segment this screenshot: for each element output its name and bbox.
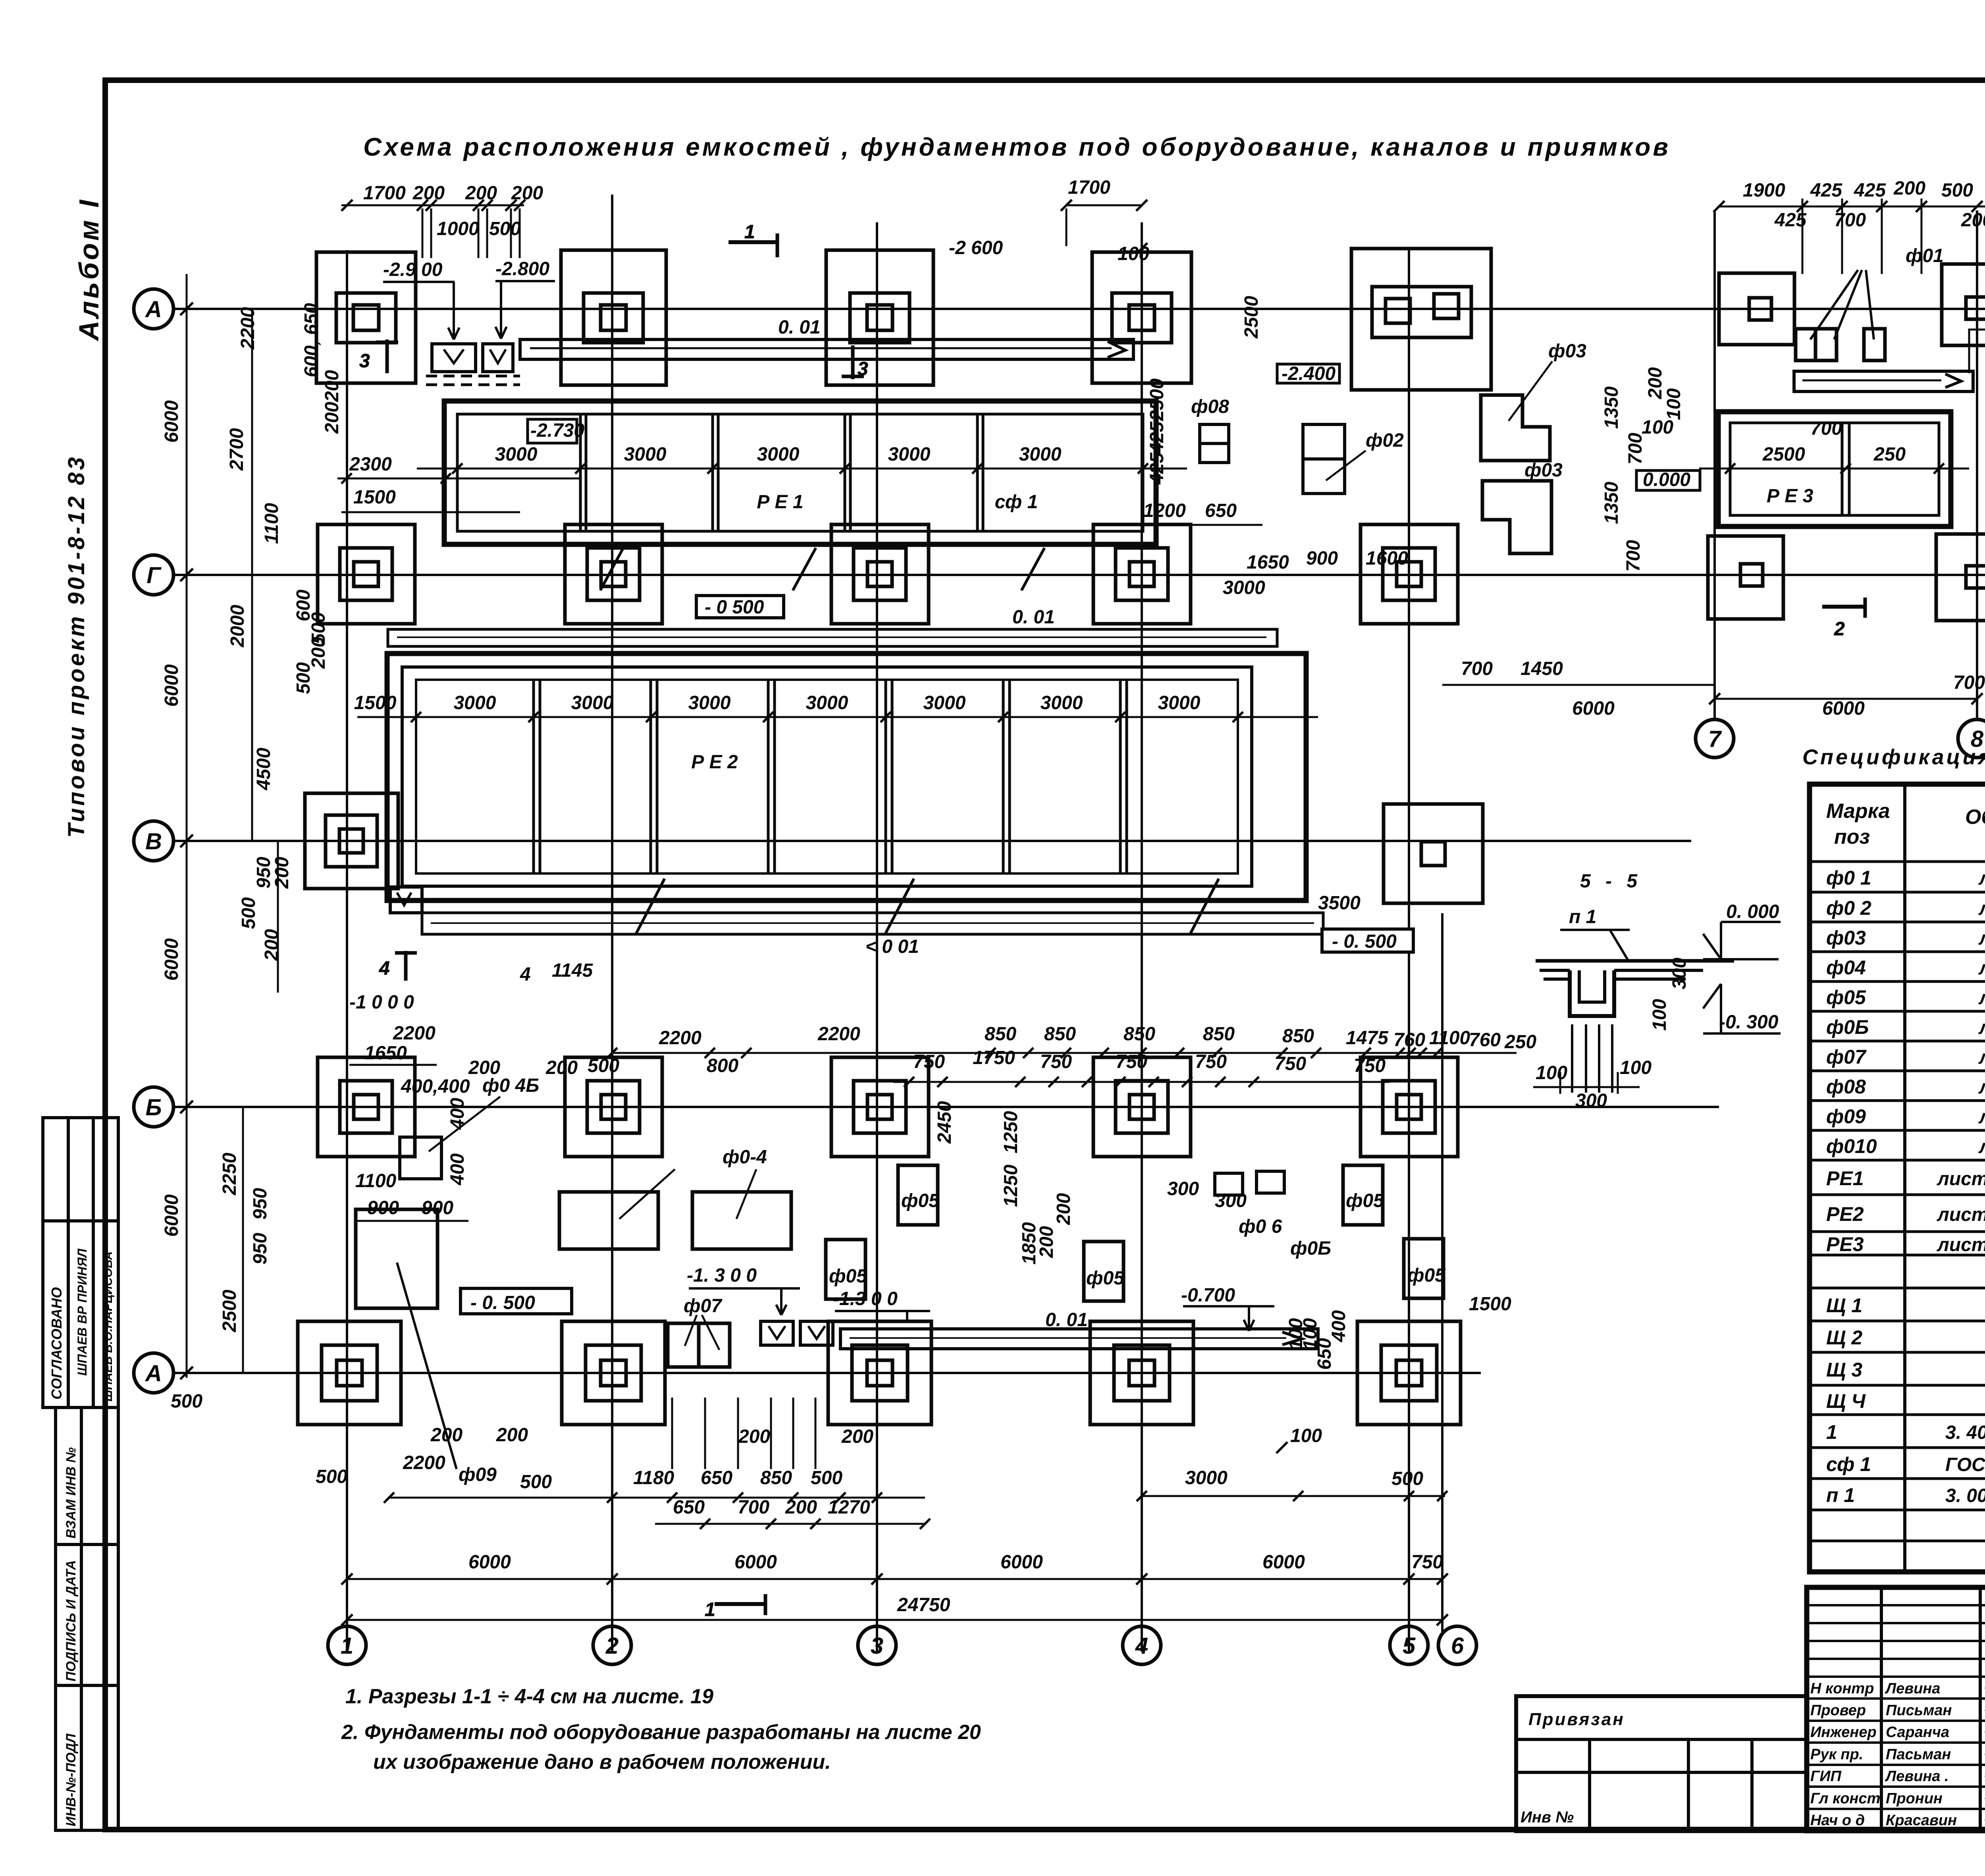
- svg-text:3: 3: [359, 351, 370, 372]
- svg-text:1350: 1350: [1601, 386, 1622, 429]
- svg-text:6000: 6000: [161, 664, 182, 707]
- svg-text:2. Фундаменты под оборуд: 2. Фундаменты под оборудование разработа…: [341, 1721, 981, 1744]
- svg-text:лист: лист: [1978, 1047, 1985, 1068]
- svg-text:500: 500: [238, 897, 259, 929]
- svg-text:2250: 2250: [219, 1153, 240, 1195]
- svg-text:ф07: ф07: [684, 1296, 723, 1317]
- dim line bottom-6000: [347, 1578, 1442, 1580]
- svg-text:200: 200: [738, 1426, 770, 1447]
- axis circle 5: [1390, 1626, 1428, 1664]
- svg-text:Провер: Провер: [1810, 1702, 1866, 1719]
- svg-text:1: 1: [744, 222, 755, 243]
- svg-text:3: 3: [858, 359, 868, 380]
- svg-text:200: 200: [261, 929, 282, 961]
- svg-text:6000: 6000: [161, 938, 182, 981]
- svg-text:2000: 2000: [227, 605, 248, 648]
- svg-text:-0. 300: -0. 300: [1719, 1012, 1779, 1033]
- svg-text:950: 950: [250, 1233, 271, 1265]
- svg-text:200: 200: [496, 1425, 528, 1446]
- svg-text:В: В: [145, 829, 162, 854]
- footing A2-1: [298, 1321, 401, 1425]
- svg-text:1100: 1100: [1429, 1028, 1470, 1049]
- footing G1: [318, 524, 415, 624]
- svg-text:Щ 2: Щ 2: [1826, 1327, 1862, 1349]
- svg-text:3000: 3000: [1041, 692, 1083, 713]
- right scheme channel: [1794, 371, 1973, 391]
- svg-text:-0.700: -0.700: [1181, 1285, 1235, 1306]
- axis circle В row2: [134, 821, 173, 861]
- leader slashes under RE2: [636, 879, 1219, 935]
- level -0.500 box bottom: [461, 1288, 572, 1314]
- leader fo-10: [429, 1097, 500, 1151]
- svg-text:425: 425: [1854, 180, 1886, 201]
- svg-text:3000: 3000: [1019, 444, 1062, 465]
- leaders fo1: [1810, 270, 1874, 339]
- dim line rs-bot: [1715, 698, 1977, 700]
- svg-text:ф05: ф05: [1826, 986, 1866, 1008]
- svg-text:ф05: ф05: [829, 1266, 867, 1287]
- svg-text:сф 1: сф 1: [995, 492, 1038, 513]
- svg-text:6000: 6000: [161, 400, 182, 443]
- svg-text:3000: 3000: [454, 692, 496, 713]
- svg-text:-2.800: -2.800: [495, 258, 549, 280]
- svg-text:2200: 2200: [237, 307, 258, 350]
- spec header texts: [1826, 800, 1985, 848]
- svg-text:500: 500: [811, 1467, 842, 1488]
- dim chain mid2: [893, 1081, 1389, 1083]
- svg-text:лист: лист: [1978, 1107, 1985, 1128]
- axis row В 2: [173, 840, 1691, 842]
- svg-text:ГИП: ГИП: [1810, 1768, 1842, 1785]
- svg-text:425: 425: [1810, 180, 1842, 201]
- svg-text:300: 300: [1575, 1090, 1607, 1111]
- svg-text:6000: 6000: [1572, 698, 1615, 719]
- tick 100: [1136, 243, 1147, 254]
- svg-text:500: 500: [1941, 180, 1973, 201]
- svg-text:< 0 01: < 0 01: [865, 936, 919, 957]
- svg-text:2200: 2200: [659, 1028, 701, 1049]
- fo-4 rect pair: [559, 1192, 791, 1249]
- leader -0.700: [1183, 1306, 1274, 1331]
- svg-text:760: 760: [1393, 1030, 1425, 1051]
- svg-text:ф07: ф07: [1826, 1046, 1867, 1068]
- level 0.000 box: [1636, 469, 1700, 490]
- footing scheme G-7: [1708, 536, 1783, 619]
- footing A1: [316, 252, 416, 383]
- level -0.500 box right: [1322, 929, 1413, 952]
- svg-text:1600: 1600: [1366, 548, 1408, 569]
- svg-text:750: 750: [1116, 1051, 1147, 1072]
- svg-text:6000: 6000: [1822, 698, 1865, 719]
- svg-text:2450: 2450: [934, 1101, 955, 1144]
- footing B5: [1361, 1057, 1458, 1157]
- svg-text:700: 700: [1623, 540, 1644, 572]
- svg-text:2500: 2500: [219, 1290, 240, 1332]
- level -2.400 box: [1277, 363, 1339, 384]
- leader fo3 upper: [1509, 361, 1552, 421]
- fo8 pair: [1200, 424, 1229, 463]
- svg-text:3: 3: [871, 1633, 883, 1659]
- svg-text:500: 500: [316, 1466, 347, 1487]
- svg-text:400,400: 400,400: [401, 1076, 470, 1097]
- section mark 1 bottom: [705, 1594, 766, 1620]
- dim line through RE2: [357, 716, 1318, 718]
- svg-text:лист: лист: [1978, 987, 1985, 1008]
- svg-text:250: 250: [1504, 1032, 1536, 1053]
- svg-text:ф03: ф03: [1548, 341, 1586, 362]
- fo5 square 2: [1343, 1165, 1383, 1225]
- footing V5: [1384, 804, 1483, 903]
- tank bank RE2 outer: [387, 654, 1306, 900]
- axis row А 4: [173, 1372, 1481, 1374]
- axis col 7: [1713, 210, 1716, 719]
- footing scheme A-8: [1942, 264, 1985, 345]
- svg-text:1700: 1700: [1068, 177, 1110, 198]
- svg-text:500: 500: [520, 1471, 552, 1492]
- axis col 1: [346, 250, 348, 1652]
- svg-text:п 1: п 1: [1569, 906, 1596, 927]
- svg-text:0. 01: 0. 01: [1012, 607, 1055, 628]
- svg-text:0. 01: 0. 01: [1045, 1309, 1088, 1330]
- svg-text:-1 0 0 0: -1 0 0 0: [349, 992, 414, 1013]
- svg-text:Пасьман: Пасьман: [1886, 1746, 1951, 1763]
- svg-text:750: 750: [1195, 1051, 1227, 1072]
- svg-text:1900: 1900: [1743, 180, 1785, 201]
- ticks on 6000 chain: [180, 303, 193, 1379]
- svg-text:поз: поз: [1834, 825, 1870, 848]
- svg-text:1500: 1500: [1469, 1294, 1511, 1315]
- svg-text:4500: 4500: [253, 748, 274, 791]
- axis circle 8: [1958, 719, 1985, 758]
- svg-text:ф05: ф05: [1346, 1190, 1384, 1211]
- svg-text:6000: 6000: [1000, 1552, 1043, 1573]
- top channel row A: [520, 339, 1133, 359]
- ticks bottom3768: [1137, 1491, 1447, 1501]
- svg-text:3000: 3000: [1223, 577, 1265, 598]
- leader p1: [1560, 930, 1630, 962]
- svg-text:1350: 1350: [1601, 482, 1622, 524]
- svg-text:6000: 6000: [161, 1194, 182, 1237]
- svg-text:0.000: 0.000: [1643, 469, 1690, 490]
- svg-text:500: 500: [489, 218, 521, 239]
- footing A3: [826, 250, 933, 385]
- svg-text:1: 1: [341, 1633, 353, 1659]
- svg-text:ф0 2: ф0 2: [1826, 897, 1871, 919]
- svg-text:100: 100: [1663, 388, 1684, 420]
- fo3 lower L: [1482, 481, 1551, 553]
- svg-text:Н контр: Н контр: [1810, 1680, 1874, 1697]
- axis col 8: [1976, 210, 1978, 719]
- svg-text:лист: лист: [1978, 958, 1985, 979]
- svg-text:400: 400: [447, 1098, 468, 1130]
- ticks RE1 dim: [452, 463, 1148, 474]
- svg-text:ПОДПИСЬ И ДАТА: ПОДПИСЬ И ДАТА: [64, 1560, 79, 1681]
- svg-text:700: 700: [1834, 210, 1866, 231]
- svg-text:425: 425: [1147, 421, 1168, 454]
- svg-text:425: 425: [1147, 452, 1168, 485]
- leader fo-4: [619, 1169, 756, 1219]
- svg-text:сф 1: сф 1: [1826, 1453, 1871, 1475]
- svg-text:лист: лист: [1978, 868, 1985, 889]
- fo5 square 1: [898, 1165, 938, 1225]
- svg-text:760: 760: [1469, 1030, 1501, 1051]
- svg-text:ф05: ф05: [1086, 1268, 1125, 1289]
- svg-text:200: 200: [430, 1425, 463, 1446]
- footing B1: [318, 1057, 415, 1157]
- notes: [341, 1685, 981, 1774]
- svg-text:3000: 3000: [806, 692, 848, 713]
- axis circle 1: [328, 1626, 366, 1664]
- 5-5 dowels: [1572, 1024, 1612, 1093]
- svg-text:500: 500: [171, 1391, 202, 1412]
- svg-text:-2.730: -2.730: [530, 420, 584, 441]
- ticks bottom3838: [700, 1519, 930, 1529]
- axis circle А row4: [134, 1353, 173, 1393]
- axis circle 3: [858, 1626, 896, 1664]
- svg-text:Альбом I: Альбом I: [73, 198, 104, 341]
- svg-text:0. 01: 0. 01: [778, 317, 821, 338]
- axis col 5: [1408, 250, 1410, 1652]
- tank bank RE1 outer: [444, 401, 1156, 544]
- svg-text:1650: 1650: [364, 1043, 407, 1064]
- svg-text:200: 200: [272, 857, 293, 889]
- svg-text:ВЗАМ ИНВ №: ВЗАМ ИНВ №: [64, 1447, 79, 1539]
- ticks top3: [1061, 200, 1147, 211]
- fo6 small rects: [1215, 1171, 1284, 1195]
- svg-text:Щ 3: Щ 3: [1826, 1359, 1862, 1381]
- section mark 2 right scheme: [1822, 598, 1866, 640]
- svg-text:Инв №: Инв №: [1521, 1809, 1574, 1826]
- svg-text:650: 650: [701, 1467, 732, 1488]
- axis circle Б row3: [134, 1087, 173, 1127]
- svg-text:850: 850: [985, 1024, 1016, 1045]
- svg-text:2500: 2500: [1241, 296, 1262, 339]
- svg-text:4: 4: [379, 958, 390, 979]
- svg-text:750: 750: [1040, 1051, 1072, 1072]
- svg-text:3000: 3000: [1185, 1467, 1228, 1488]
- svg-text:1475: 1475: [1346, 1028, 1389, 1049]
- svg-text:Саранча: Саранча: [1886, 1724, 1949, 1741]
- svg-text:200: 200: [1053, 1193, 1074, 1225]
- svg-text:1100: 1100: [261, 503, 282, 544]
- svg-text:850: 850: [1124, 1024, 1155, 1045]
- channel below RE2: [390, 887, 1323, 934]
- svg-text:100: 100: [1620, 1057, 1652, 1078]
- names column: [1810, 1680, 1957, 1829]
- svg-text:1500: 1500: [353, 487, 396, 508]
- svg-text:850: 850: [760, 1467, 792, 1488]
- svg-text:400: 400: [447, 1153, 468, 1186]
- dim line through RE1: [417, 468, 1187, 470]
- level mark -0.300: [1703, 984, 1781, 1033]
- fo7 foundation pair: [668, 1323, 730, 1367]
- footing scheme G-8: [1936, 534, 1985, 621]
- svg-text:РЕ2: РЕ2: [1826, 1203, 1864, 1225]
- svg-text:1: 1: [1826, 1421, 1837, 1443]
- svg-text:ф0 1: ф0 1: [1826, 867, 1871, 889]
- svg-text:п 1: п 1: [1826, 1484, 1855, 1506]
- svg-text:Спецификация фундаментов под: Спецификация фундаментов под оборудовани…: [1802, 745, 1985, 769]
- svg-text:1100: 1100: [355, 1170, 397, 1192]
- svg-text:2200: 2200: [817, 1024, 860, 1045]
- svg-text:5: 5: [1403, 1633, 1416, 1659]
- approval strip table: [43, 1118, 118, 1830]
- svg-text:3000: 3000: [888, 444, 931, 465]
- svg-text:750: 750: [1354, 1055, 1386, 1076]
- svg-text:1450: 1450: [1521, 658, 1563, 679]
- axis row Г 1: [173, 574, 1985, 576]
- svg-text:-2 600: -2 600: [949, 237, 1003, 258]
- level -2.730 box: [528, 419, 584, 443]
- svg-text:200: 200: [1645, 367, 1666, 399]
- section mark 3 right: [842, 345, 868, 380]
- ticks bottom-6000: [341, 1573, 1448, 1585]
- leader fo7: [685, 1315, 719, 1350]
- fo-10 small attach: [400, 1137, 441, 1179]
- svg-text:Р Е 1: Р Е 1: [757, 492, 803, 513]
- ticks bottom-24750: [341, 1614, 1448, 1625]
- ticks rs-top: [1713, 201, 1985, 212]
- svg-text:1. Разрезы 1-1 ÷ 4-4: 1. Разрезы 1-1 ÷ 4-4 см на листе. 19: [345, 1685, 713, 1708]
- svg-text:1650: 1650: [1247, 552, 1289, 573]
- svg-text:850: 850: [1044, 1024, 1076, 1045]
- footing A2-4: [1090, 1321, 1193, 1425]
- svg-text:ф02: ф02: [1366, 430, 1404, 451]
- svg-text:Инженер: Инженер: [1810, 1724, 1877, 1741]
- svg-text:1200: 1200: [1143, 500, 1186, 521]
- svg-text:500: 500: [293, 662, 314, 694]
- svg-text:200: 200: [511, 183, 543, 204]
- svg-text:200: 200: [468, 1057, 500, 1078]
- footing B2: [565, 1057, 662, 1157]
- dim line rs-top: [1719, 206, 1985, 208]
- svg-text:650: 650: [673, 1497, 705, 1518]
- svg-text:Привязан: Привязан: [1528, 1710, 1625, 1729]
- svg-text:200: 200: [465, 183, 497, 204]
- svg-text:3000: 3000: [624, 444, 667, 465]
- svg-text:Г: Г: [146, 563, 162, 588]
- svg-text:-2.400: -2.400: [1282, 363, 1336, 384]
- svg-text:лист: лист: [1978, 1136, 1985, 1157]
- footing V1: [305, 793, 398, 889]
- svg-text:РЕ3: РЕ3: [1826, 1233, 1864, 1255]
- svg-text:лист: лист: [1978, 1077, 1985, 1098]
- svg-text:Красавин: Красавин: [1886, 1812, 1957, 1829]
- svg-text:Гл конст: Гл конст: [1810, 1790, 1880, 1807]
- ticks rs-bot: [1709, 693, 1983, 704]
- svg-text:ф04: ф04: [1826, 956, 1866, 979]
- svg-text:300: 300: [1669, 958, 1690, 989]
- svg-text:2500: 2500: [1762, 444, 1805, 465]
- axis circle 6: [1438, 1626, 1476, 1664]
- tank RE3: [1718, 412, 1951, 526]
- svg-text:4: 4: [1135, 1633, 1148, 1659]
- svg-text:950: 950: [250, 1188, 271, 1220]
- axis col 4: [1141, 222, 1143, 1652]
- svg-text:Пронин: Пронин: [1886, 1790, 1943, 1807]
- svg-text:Левина: Левина: [1885, 1680, 1941, 1697]
- svg-text:4: 4: [520, 964, 531, 985]
- dim line bottom-24750: [347, 1619, 1442, 1621]
- svg-text:- 0. 500: - 0. 500: [470, 1292, 535, 1313]
- leader -1300a: [689, 1288, 800, 1315]
- 5-5 slab and trough: [1536, 961, 1734, 1016]
- svg-text:лист: лист: [1978, 928, 1985, 949]
- svg-text:24750: 24750: [897, 1595, 950, 1616]
- svg-text:ф05: ф05: [901, 1190, 940, 1211]
- footing scheme A-7: [1719, 273, 1794, 345]
- svg-text:200: 200: [322, 402, 343, 434]
- svg-text:Б: Б: [145, 1095, 162, 1120]
- svg-text:- 0. 500: - 0. 500: [1332, 931, 1397, 952]
- fo5 square 5: [1404, 1239, 1443, 1298]
- svg-text:3000: 3000: [1158, 692, 1201, 713]
- spec table grid: [1810, 784, 1985, 1572]
- svg-text:200: 200: [545, 1057, 578, 1078]
- svg-text:ШПАЕВ ВР ПРИНЯЛ: ШПАЕВ ВР ПРИНЯЛ: [75, 1248, 89, 1376]
- axis col 6: [1441, 913, 1443, 1632]
- svg-text:Обозначение: Обозначение: [1965, 806, 1985, 829]
- svg-text:850: 850: [1203, 1024, 1235, 1045]
- footing A2: [561, 250, 666, 385]
- footing G2: [565, 524, 662, 624]
- svg-text:650: 650: [1205, 500, 1237, 521]
- footing A2-3: [828, 1321, 931, 1425]
- leader slashes under RE1: [600, 548, 1045, 590]
- svg-text:6000: 6000: [468, 1552, 511, 1573]
- svg-text:ф0 6: ф0 6: [1239, 1216, 1282, 1237]
- axis col 2: [611, 195, 613, 1652]
- svg-text:3000: 3000: [757, 444, 800, 465]
- svg-text:850: 850: [1282, 1026, 1314, 1047]
- dim line RE3: [1699, 468, 1969, 470]
- svg-text:750: 750: [1411, 1552, 1443, 1573]
- svg-text:2: 2: [1834, 619, 1845, 640]
- svg-text:Левина .: Левина .: [1885, 1768, 1949, 1785]
- svg-text:200: 200: [412, 183, 445, 204]
- svg-text:-2.9 00: -2.9 00: [383, 259, 443, 280]
- svg-text:200: 200: [322, 370, 343, 402]
- svg-text:-1. 3 0 0: -1. 3 0 0: [687, 1265, 757, 1286]
- svg-text:Рук пр.: Рук пр.: [1810, 1746, 1863, 1763]
- fo3 upper L: [1481, 395, 1550, 461]
- footing G5: [1361, 524, 1458, 624]
- axis circle 7: [1696, 719, 1734, 758]
- svg-text:500: 500: [1391, 1468, 1423, 1489]
- svg-text:650: 650: [1314, 1338, 1335, 1370]
- svg-text:ф0Б: ф0Б: [1826, 1016, 1869, 1038]
- svg-text:200: 200: [1893, 178, 1925, 199]
- svg-text:3. 00Б - 2 вып. II-2: 3. 00Б - 2 вып. II-2: [1945, 1485, 1985, 1506]
- svg-text:Схема расположения емкостей: Схема расположения емкостей , фундаменто…: [363, 133, 1671, 161]
- dim line top1: [341, 204, 524, 206]
- svg-text:1000: 1000: [437, 218, 479, 239]
- svg-text:Р Е 2: Р Е 2: [691, 752, 738, 773]
- axis row Б 3: [173, 1106, 1719, 1108]
- section mark 3 left: [359, 339, 398, 373]
- svg-text:200: 200: [841, 1426, 873, 1447]
- level -0.500 box top: [696, 596, 784, 618]
- svg-text:ф09: ф09: [1826, 1105, 1866, 1128]
- title block outer: [1807, 1587, 1985, 1831]
- svg-text:3000: 3000: [495, 444, 538, 465]
- tick 100b: [1276, 1442, 1287, 1453]
- svg-text:300: 300: [1215, 1190, 1247, 1211]
- fo5 square 3: [826, 1240, 865, 1299]
- svg-text:СОГЛАСОВАНО: СОГЛАСОВАНО: [48, 1287, 65, 1400]
- svg-text:1: 1: [705, 1599, 715, 1620]
- fo5 square 4: [1084, 1242, 1124, 1301]
